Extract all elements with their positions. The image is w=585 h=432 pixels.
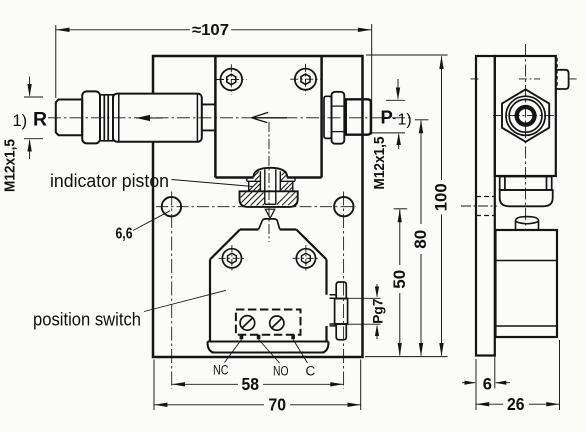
svg-text:26: 26 xyxy=(507,394,525,414)
indicator piston left wing xyxy=(247,178,261,182)
position switch body xyxy=(210,230,327,342)
leader indicator piston xyxy=(172,180,254,187)
svg-text:70: 70 xyxy=(269,395,287,415)
dimension 50 xyxy=(394,208,408,210)
svg-text:≈107: ≈107 xyxy=(192,22,229,39)
side hex port xyxy=(502,89,549,141)
dimension Pg7 xyxy=(376,284,378,339)
leader position switch xyxy=(144,290,226,311)
flow arrow in left fitting xyxy=(136,117,163,119)
screw top-right centerlines xyxy=(290,64,321,95)
terminal contacts xyxy=(240,335,295,340)
screw top-left centerlines xyxy=(216,64,247,95)
svg-text:1): 1) xyxy=(13,112,28,130)
indicator piston hatch upper sleeve xyxy=(249,182,293,191)
indicator piston right wing xyxy=(280,178,295,182)
side plate hidden hole lines xyxy=(476,197,495,216)
switch screw left xyxy=(222,249,241,268)
dimension M12x1,5 left arrows xyxy=(29,77,31,160)
svg-text:indicator piston: indicator piston xyxy=(50,171,169,191)
dimension 26 (side) xyxy=(559,340,561,410)
svg-text:P: P xyxy=(381,107,393,128)
screw top-left xyxy=(221,69,243,91)
side switch plunger xyxy=(516,217,539,230)
side block xyxy=(495,56,556,176)
indicator piston gland nut xyxy=(240,191,298,207)
svg-text:C: C xyxy=(306,364,316,379)
dimension 58 xyxy=(172,383,343,385)
svg-text:M12x1,5: M12x1,5 xyxy=(372,137,388,190)
switch plunger hump xyxy=(259,219,280,229)
port R hex nut xyxy=(82,91,100,143)
indicator piston gland nut hatch left xyxy=(241,192,265,206)
port P washer xyxy=(324,96,332,138)
dimension 70 xyxy=(154,360,361,411)
dimension 6 (side) xyxy=(476,340,495,410)
switch screw right centerlines xyxy=(293,245,320,272)
indicator piston axis centerline xyxy=(268,122,270,242)
position switch bottom flange xyxy=(208,342,329,353)
svg-text:position switch: position switch xyxy=(33,310,141,330)
leader C xyxy=(293,340,307,364)
side hex port circles xyxy=(506,96,545,135)
switch screw right hex socket xyxy=(302,253,311,263)
indicator piston gland nut hatch right xyxy=(277,192,298,206)
indicator piston hatch dome crescents xyxy=(254,171,286,181)
side hex port centerline horizontal xyxy=(493,115,557,117)
port R fitting body xyxy=(113,94,202,142)
svg-text:NO: NO xyxy=(273,364,289,379)
port P hex nut xyxy=(332,92,345,144)
port R washers xyxy=(100,94,113,142)
plate holes centerline horizontal xyxy=(156,206,356,208)
valve block (front view) xyxy=(215,56,321,178)
terminal screw left xyxy=(240,316,255,331)
leader NC xyxy=(225,340,242,363)
plate hole left 6,6 xyxy=(162,197,181,216)
plate hole right 6,6 xyxy=(334,197,353,216)
terminal screw right xyxy=(270,316,284,330)
side vertical centerline xyxy=(525,44,527,231)
indicator piston upper sleeve sides xyxy=(249,181,293,191)
port R body collar line xyxy=(119,94,198,142)
switch screw left centerlines xyxy=(219,245,246,272)
side switch body xyxy=(496,230,558,337)
hole right vertical centerline / 58 extension xyxy=(343,192,345,390)
leader 6,6 xyxy=(133,211,170,231)
dimension ~107 xyxy=(56,22,372,135)
side plug right xyxy=(556,70,569,89)
side switch body lines xyxy=(496,261,558,327)
switch screw left hex socket xyxy=(228,253,237,263)
svg-text:6,6: 6,6 xyxy=(116,226,133,243)
svg-text:50: 50 xyxy=(391,270,409,289)
indicator piston dome xyxy=(253,168,287,178)
side plug centerline xyxy=(471,78,578,80)
port R threaded plug xyxy=(56,100,82,136)
screw top-right hex socket xyxy=(301,74,310,84)
dimension 100 extension top xyxy=(366,54,448,56)
port centerline (R-P axis) xyxy=(48,117,412,119)
dimension 100 extension bottom (shared) xyxy=(365,356,448,358)
dimension M12x1,5 right arrows xyxy=(397,79,400,149)
side indicator nut xyxy=(500,190,553,206)
indicator piston tip xyxy=(265,209,275,218)
side hole centerline xyxy=(461,205,497,207)
svg-text:58: 58 xyxy=(242,374,260,394)
dimension 80 xyxy=(415,119,429,121)
port P hex nut facet lines xyxy=(332,106,345,132)
dimension 100 xyxy=(441,57,443,356)
svg-text:R: R xyxy=(33,109,47,131)
indicator piston inner cylinder xyxy=(260,169,280,204)
flow arrow in valve block xyxy=(252,112,288,122)
side indicator nut collar xyxy=(500,177,552,191)
hole left vertical centerline / 58 extension xyxy=(171,192,173,390)
screw top-right xyxy=(295,69,316,90)
mounting plate (front view) xyxy=(153,56,363,357)
svg-text:1): 1) xyxy=(398,112,412,129)
port R neck xyxy=(202,104,216,130)
svg-text:NC: NC xyxy=(213,363,229,378)
port P threaded plug xyxy=(346,99,371,134)
svg-text:Pg7: Pg7 xyxy=(370,299,385,324)
terminal cover (dashed) xyxy=(236,310,301,335)
svg-text:100: 100 xyxy=(433,183,451,211)
switch screw right xyxy=(296,249,315,268)
screw top-left hex socket xyxy=(227,74,236,84)
svg-text:80: 80 xyxy=(412,230,430,249)
leader NO xyxy=(259,340,280,364)
svg-text:M12x1,5: M12x1,5 xyxy=(3,139,19,192)
svg-text:6: 6 xyxy=(483,376,492,394)
cable gland Pg7 xyxy=(330,295,337,326)
side plate xyxy=(476,56,495,356)
